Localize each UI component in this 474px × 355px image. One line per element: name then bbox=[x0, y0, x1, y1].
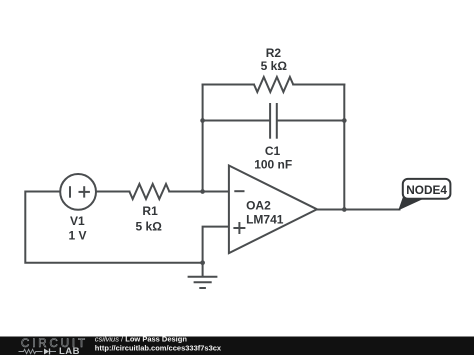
op-amp OA2 bbox=[229, 166, 317, 254]
junction at C1 branch right bbox=[342, 118, 347, 123]
svg-text:C1: C1 bbox=[265, 144, 281, 158]
node NODE4 flag box bbox=[403, 179, 451, 199]
junction at ground node bbox=[200, 260, 205, 265]
logo resistor squiggle bbox=[19, 349, 43, 353]
svg-text:LM741: LM741 bbox=[246, 212, 284, 226]
wire C1 branch left bbox=[203, 120, 270, 122]
wire R2 top branch right bbox=[293, 84, 344, 86]
svg-text:NODE4: NODE4 bbox=[406, 183, 447, 197]
svg-text:LAB: LAB bbox=[59, 346, 80, 355]
svg-text:http://circuitlab.com/cces333f: http://circuitlab.com/cces333f7s3cx bbox=[95, 343, 222, 352]
wire C1 branch right bbox=[277, 120, 344, 122]
wire non-inverting input from ground node bbox=[203, 227, 229, 263]
wire feedback vertical right to output bbox=[343, 85, 345, 210]
voltage source V1 bbox=[60, 174, 96, 210]
junction at C1 branch left bbox=[200, 118, 205, 123]
capacitor C1 bbox=[270, 103, 277, 139]
svg-text:csilvius / Low Pass Design: csilvius / Low Pass Design bbox=[95, 334, 188, 343]
svg-text:5 kΩ: 5 kΩ bbox=[261, 59, 288, 73]
svg-text:OA2: OA2 bbox=[246, 198, 271, 212]
node NODE4 flag tail bbox=[399, 198, 422, 209]
wire R1 right to op-amp inverting input bbox=[169, 191, 229, 193]
resistor R1 bbox=[129, 184, 169, 199]
svg-text:R1: R1 bbox=[142, 204, 158, 218]
svg-text:5 kΩ: 5 kΩ bbox=[136, 220, 163, 234]
junction at R1/feedback node bbox=[200, 189, 205, 194]
resistor R2 bbox=[254, 77, 293, 92]
footer bar bbox=[0, 337, 474, 355]
ground bbox=[188, 263, 218, 288]
op-amp minus pin mark bbox=[234, 190, 244, 192]
op-amp plus pin mark bbox=[233, 222, 245, 234]
svg-text:1 V: 1 V bbox=[68, 228, 86, 242]
logo diode symbol bbox=[44, 349, 49, 355]
wire feedback vertical left (node to R2/C1) bbox=[202, 85, 204, 192]
junction at output node bbox=[342, 207, 347, 212]
wire left loop from V1 to ground rail bbox=[25, 192, 201, 263]
wire V1 right to R1 left bbox=[96, 191, 129, 193]
wire op-amp output to node flag bbox=[317, 209, 400, 211]
svg-text:R2: R2 bbox=[266, 46, 282, 60]
svg-text:100 nF: 100 nF bbox=[254, 158, 292, 172]
wire R2 top branch left bbox=[203, 84, 254, 86]
svg-text:V1: V1 bbox=[70, 214, 85, 228]
